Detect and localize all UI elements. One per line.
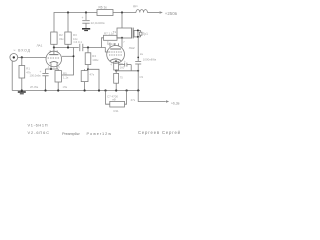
resistor R6 (series in rail) — [97, 10, 113, 16]
svg-text:+250в: +250в — [165, 11, 178, 16]
wire rail drop to C3 — [85, 13, 87, 21]
resistor R3 — [65, 32, 71, 48]
ground main — [18, 92, 26, 94]
node junction plate-R7 — [121, 37, 123, 39]
svg-text:+: + — [124, 59, 126, 63]
node junction anode-R3 — [67, 46, 69, 48]
capacitor C4 coupling — [80, 44, 83, 51]
svg-text:4: 4 — [48, 66, 50, 69]
wire rail drop to R3 — [67, 13, 69, 33]
svg-text:Preamp6w: Preamp6w — [62, 131, 80, 136]
label pin numbers V2 — [107, 41, 125, 67]
speaker Gr1 — [138, 30, 142, 37]
svg-text:Т1: Т1 — [113, 30, 117, 34]
node junction jack-R1 — [21, 56, 23, 58]
node junction rail-C3 — [85, 11, 87, 13]
node junction bus-R8 — [84, 89, 86, 91]
node junction bus-R1 — [21, 89, 23, 91]
transformer T1 secondary — [134, 30, 138, 37]
node junction speaker top — [137, 29, 139, 31]
svg-text:R6 1к: R6 1к — [99, 6, 108, 10]
wire jack to V1 grid — [18, 56, 46, 58]
node junction feedback tap — [137, 57, 139, 59]
node junction R9a-R9b — [115, 70, 117, 72]
svg-text:1000пФ6в: 1000пФ6в — [143, 57, 157, 61]
label pin numbers V1 — [48, 51, 61, 69]
capacitor C9 feedback 1000p — [135, 61, 141, 90]
svg-text:V2-6П6С: V2-6П6С — [28, 130, 50, 135]
node junction bus-R10 — [115, 89, 117, 91]
node junction bus-99 — [98, 89, 100, 91]
node junction bus-C7 right — [126, 89, 128, 91]
ground under C3 — [82, 29, 90, 31]
resistor R4 grid leak vertical — [85, 48, 91, 70]
input jack XS1 — [10, 54, 18, 62]
svg-text:≈6,3в: ≈6,3в — [171, 102, 180, 106]
node junction R4 bottom — [87, 68, 89, 70]
wire NFB injection — [116, 70, 138, 72]
svg-text:Power12w: Power12w — [87, 131, 112, 136]
wire rail to +250V arrow — [147, 12, 159, 14]
wire jack sleeve to bus — [11, 61, 13, 91]
wire V1 cathode top — [46, 68, 59, 70]
svg-text:1Па: 1Па — [63, 86, 68, 89]
svg-text:100к: 100к — [92, 58, 99, 62]
wire C4 to V2 grid — [83, 48, 109, 53]
node junction rail-R4 — [67, 11, 69, 13]
svg-text:75: 75 — [120, 76, 123, 80]
wire V1 anode node horizontal — [54, 47, 79, 49]
capacitor C6 cathode bypass V2 — [119, 63, 132, 71]
node junction rail-T1 — [121, 11, 123, 13]
resistor R5 cathode — [55, 69, 61, 91]
svg-text:≈ ВХОД: ≈ ВХОД — [14, 48, 31, 52]
svg-text:2а: 2а — [140, 52, 143, 56]
resistor R10 cathode lower — [114, 70, 119, 91]
node junction cathode — [50, 68, 52, 70]
svg-text:Гр1: Гр1 — [143, 32, 148, 36]
resistor R1 47k — [19, 57, 25, 90]
node junction V2 cathode — [115, 60, 117, 62]
svg-text:47к: 47к — [90, 73, 95, 77]
resistor R8 to bus — [81, 69, 88, 90]
svg-text:2Н-05а: 2Н-05а — [30, 86, 39, 89]
svg-text:33к: 33к — [59, 37, 64, 41]
transformer T1 primary — [117, 13, 132, 39]
svg-text:+: + — [40, 70, 42, 74]
node junction speaker bottom — [137, 36, 139, 38]
node junction bus-C7 left — [104, 89, 106, 91]
arrowhead heater — [166, 100, 169, 103]
tube V1 triode — [46, 51, 62, 69]
wire secondary to feedback C9 — [137, 37, 139, 62]
node junction triode2 — [73, 55, 75, 57]
capacitor C2 cathode bypass — [42, 69, 48, 91]
svg-text:4: 4 — [111, 63, 113, 66]
wire V1 plate lead — [53, 48, 55, 55]
svg-text:100,0x6в: 100,0x6в — [30, 74, 42, 78]
svg-text:Сергеев Сергей: Сергеев Сергей — [138, 130, 181, 135]
wire second triode branch — [62, 48, 74, 76]
resistor R2 (V1 anode load) — [51, 32, 57, 48]
node junction grid-R7 — [87, 46, 89, 48]
svg-text:5: 5 — [58, 66, 60, 69]
resistor R10 feedback loop bottom — [106, 91, 127, 108]
svg-text:22,0х400в: 22,0х400в — [91, 21, 105, 25]
wire rail middle segment — [113, 12, 136, 14]
wire R4 node right and down — [88, 69, 99, 90]
svg-text:ЛА1: ЛА1 — [37, 44, 43, 48]
capacitor C3 (filter 22,0x400v) — [82, 21, 89, 29]
inductor L1 choke — [136, 10, 147, 13]
wire ground bus — [12, 90, 140, 92]
resistor R7 (feedback 1k) horizontal — [102, 35, 123, 47]
resistor R9 cathode upper — [114, 62, 119, 70]
node junction bus-R5 — [57, 89, 59, 91]
node junction bus-C9 — [137, 89, 139, 91]
svg-text:7: 7 — [123, 41, 125, 44]
svg-text:+: + — [82, 16, 84, 20]
node junction bus-C2 — [44, 89, 46, 91]
svg-text:ЛА2: ЛА2 — [129, 46, 135, 50]
svg-text:Др1: Др1 — [133, 4, 138, 8]
svg-text:1,1к: 1,1к — [63, 76, 69, 80]
node junction NFB-C9 line — [137, 70, 139, 72]
node junction anode-R2 — [53, 46, 55, 48]
wire B+ rail left segment — [54, 13, 97, 33]
svg-text:С9: С9 — [140, 75, 144, 79]
svg-text:47к: 47к — [131, 98, 136, 102]
tube V2 pentode — [107, 38, 125, 64]
arrowhead +250V — [160, 11, 163, 14]
svg-text:V1-6Н1П: V1-6Н1П — [28, 123, 48, 128]
svg-text:R11: R11 — [114, 109, 119, 113]
wire heater arrow — [138, 91, 166, 102]
svg-text:С4 0,1: С4 0,1 — [74, 40, 83, 44]
transformer T1 core — [132, 28, 133, 39]
